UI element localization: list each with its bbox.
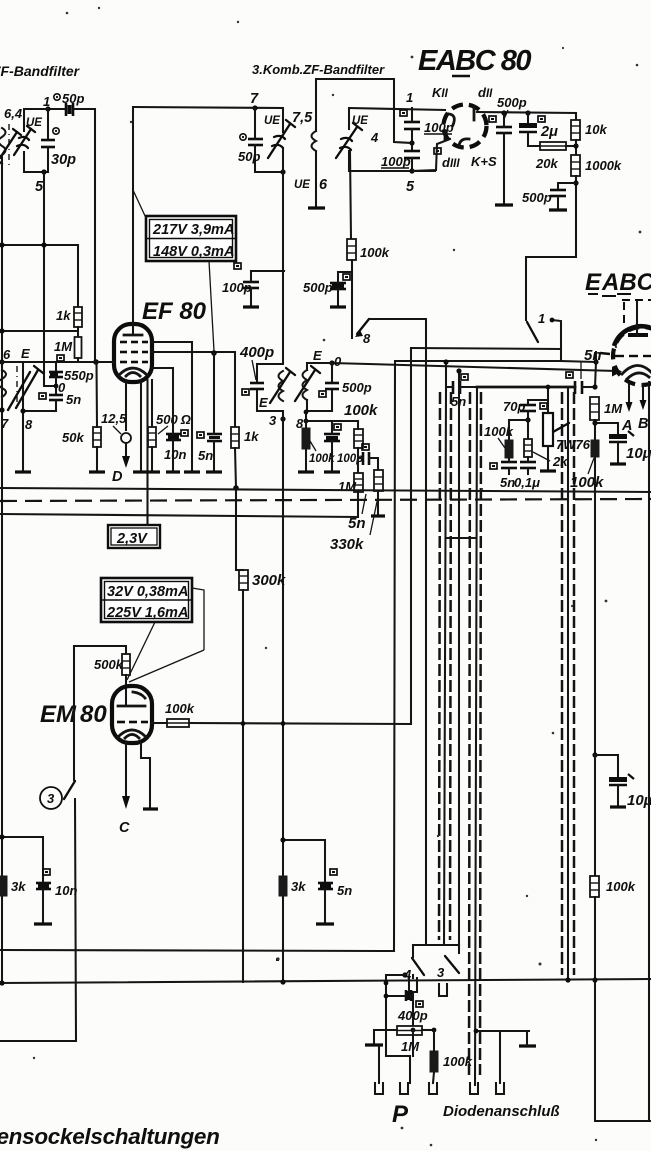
junction dots grid wire xyxy=(281,721,286,726)
svg-text:2,3V: 2,3V xyxy=(116,531,148,547)
capacitor 100p lower xyxy=(404,151,420,158)
svg-text:C: C xyxy=(119,820,130,836)
svg-text:7: 7 xyxy=(1,416,9,431)
550p to 5n node xyxy=(55,377,57,394)
svg-text:1000k: 1000k xyxy=(585,158,622,173)
svg-text:Diodenanschluß: Diodenanschluß xyxy=(443,1103,560,1120)
svg-text:2μ: 2μ xyxy=(540,124,558,140)
capacitor 5n cable link xyxy=(453,381,460,394)
tube lead heater down xyxy=(146,380,148,525)
svg-text:E: E xyxy=(259,395,268,410)
potentiometer 7W76 body xyxy=(543,413,553,446)
svg-text:2k: 2k xyxy=(552,454,568,469)
switch 3 feed wire xyxy=(73,646,75,780)
wire right column down xyxy=(575,113,577,120)
IF4 secondary coil left xyxy=(306,363,308,370)
svg-text:P: P xyxy=(392,1101,409,1128)
pin B wire with arrow xyxy=(640,384,647,410)
resistor 1k EF80 grid xyxy=(74,307,82,327)
pointer box right elbow xyxy=(192,588,204,650)
junction dot node 5 xyxy=(409,168,414,173)
IF4 primary coil xyxy=(279,371,284,401)
dot marker above 550p xyxy=(57,355,64,361)
svg-text:D: D xyxy=(112,469,123,485)
pot bottom ground xyxy=(547,446,549,470)
junction dot 10u second tap xyxy=(592,752,597,757)
100k ground stems xyxy=(305,421,307,428)
wire 100k to 500p node xyxy=(338,260,352,272)
resistor 2k xyxy=(524,439,532,457)
dot marker near 70p xyxy=(540,403,547,409)
EF80 grid dashes xyxy=(120,342,148,362)
junction dots y245 xyxy=(0,242,5,247)
wire under contact4 column xyxy=(386,1055,410,1057)
svg-text:300k: 300k xyxy=(252,572,286,589)
5n link stems xyxy=(358,457,363,459)
2u stems xyxy=(527,113,529,123)
measuring loop 12,5 xyxy=(121,433,131,443)
svg-text:5n: 5n xyxy=(500,475,515,490)
cable1 conductor down xyxy=(444,390,446,944)
EM80 target lead to ground xyxy=(141,743,150,808)
junction dot contact4 column xyxy=(384,981,389,986)
svg-text:5: 5 xyxy=(35,179,44,195)
svg-text:500p: 500p xyxy=(342,380,372,395)
junction dot 0 xyxy=(54,384,59,389)
100k branch stem xyxy=(508,420,510,440)
50p-2 stems xyxy=(254,108,256,139)
resistor 1M pickup xyxy=(397,1026,422,1035)
leader 2k xyxy=(533,452,550,461)
svg-text:50k: 50k xyxy=(62,430,84,445)
svg-text:E: E xyxy=(21,346,30,361)
resistor 1000k xyxy=(571,155,580,176)
junction dot line C start xyxy=(329,360,334,365)
svg-text:0: 0 xyxy=(334,354,342,369)
dot marker above 5n right xyxy=(330,869,337,875)
capacitor 70p xyxy=(520,405,536,411)
underline under B xyxy=(452,75,470,77)
long vertical from node3 xyxy=(282,411,284,982)
junction dot g1 xyxy=(93,359,99,365)
10u second ground xyxy=(617,785,619,806)
svg-text:30p: 30p xyxy=(51,152,76,168)
variable core arrow primary xyxy=(270,368,295,403)
node 8 stub xyxy=(305,411,307,421)
junction dot mid caps xyxy=(409,140,414,145)
svg-text:500p: 500p xyxy=(522,190,552,205)
capacitor 5n right xyxy=(318,883,333,889)
svg-text:100k: 100k xyxy=(443,1054,473,1069)
svg-text:ZF-Bandfilter: ZF-Bandfilter xyxy=(0,63,81,79)
resistor 100k pickup xyxy=(430,1051,438,1072)
5n bottom stem xyxy=(55,400,57,411)
switch arm 4 xyxy=(412,958,424,975)
5n cable link wires xyxy=(446,386,453,388)
junction dot trimmer bottom xyxy=(280,169,285,174)
IF4 primary box xyxy=(257,363,283,365)
svg-text:7W76: 7W76 xyxy=(556,437,591,452)
wire grid node down xyxy=(595,362,596,387)
wire 1M to 100k xyxy=(594,420,596,440)
cathode hook K+S xyxy=(459,139,469,146)
svg-text:8: 8 xyxy=(363,331,371,346)
junction dot 20k node xyxy=(573,143,578,148)
ground below coil xyxy=(308,206,325,209)
pointer box to screen line xyxy=(209,261,214,351)
ground under 50k xyxy=(89,470,105,473)
resistor 100k series xyxy=(354,429,363,448)
svg-text:330k: 330k xyxy=(330,536,364,553)
resistor 3k left xyxy=(0,876,7,896)
dot marker near 500p xyxy=(489,116,496,122)
svg-text:100k: 100k xyxy=(165,701,195,716)
svg-text:1: 1 xyxy=(406,90,413,105)
0,1u stems xyxy=(527,457,529,462)
wire d II anode out to right xyxy=(477,112,576,113)
wire 1000k down xyxy=(526,176,576,320)
junction dot 500p-c tap xyxy=(573,180,578,185)
resistor 500k xyxy=(122,654,130,675)
vertical to bottom bus xyxy=(394,361,395,951)
resistor 1M AF xyxy=(354,473,363,492)
svg-text:0: 0 xyxy=(58,380,66,395)
label 100p upper underlined xyxy=(424,120,454,135)
svg-text:3: 3 xyxy=(47,791,55,806)
svg-text:10k: 10k xyxy=(585,122,607,137)
capacitor 5n cathode xyxy=(207,434,222,441)
bus line lower full width xyxy=(0,979,651,983)
arrowhead into EABC2 cathode xyxy=(612,367,622,377)
capacitor 30p xyxy=(41,140,55,147)
leader 500ohm xyxy=(158,426,168,434)
resistor 1M grid leak xyxy=(590,397,599,420)
label 100p lower underlined xyxy=(381,154,411,169)
capacitor 100p upper xyxy=(404,122,420,129)
capacitor 400p xyxy=(250,383,264,389)
terminal 4 xyxy=(470,1083,478,1094)
pickup switch bar xyxy=(413,944,459,946)
svg-text:B: B xyxy=(638,416,648,432)
contact 3 column xyxy=(412,975,414,978)
wire 2k branch xyxy=(527,420,529,439)
node 1 junction dot xyxy=(45,106,50,111)
capacitor 400p pickup xyxy=(406,990,411,1001)
70p bottom stem xyxy=(527,411,529,420)
trimmer capacitor EABC box xyxy=(336,123,362,158)
tube EABC80 dashed envelope xyxy=(444,105,487,148)
50k wires xyxy=(95,362,98,427)
5n right ground xyxy=(324,889,326,923)
leader 5n coupling xyxy=(580,362,582,379)
svg-text:550p: 550p xyxy=(64,368,94,383)
trimmer capacitor 3.komb xyxy=(268,120,295,158)
pin A wire with arrow xyxy=(626,384,633,412)
junction dot 2u tap xyxy=(525,110,530,115)
tube2 cathode arcs xyxy=(622,365,651,379)
svg-text:EF 80: EF 80 xyxy=(142,298,207,325)
svg-text:217V 3,9mA: 217V 3,9mA xyxy=(152,222,234,238)
bus line upper xyxy=(0,950,394,951)
wire 10k to 1000k xyxy=(575,140,577,155)
100k pickup wires xyxy=(433,1030,435,1051)
svg-text:100k: 100k xyxy=(570,474,604,491)
capacitor 5n coupling xyxy=(575,381,582,394)
wire trimmer line down to 4th filter xyxy=(282,148,284,364)
5n branch wire right xyxy=(283,840,325,882)
junction dot 70p node xyxy=(525,417,530,422)
dot marker above 5n cable xyxy=(461,374,468,380)
switch 8 arm xyxy=(355,319,369,337)
node 7 junction dot xyxy=(252,105,257,110)
heater return line lower xyxy=(0,514,358,517)
junction dot y331 xyxy=(0,328,5,333)
10n branch wire left xyxy=(2,837,43,882)
E-box left edge xyxy=(23,363,56,411)
leader 100k lower xyxy=(310,441,316,451)
svg-text:400p: 400p xyxy=(397,1008,428,1023)
svg-text:100k: 100k xyxy=(606,879,636,894)
tube2 grid dashes xyxy=(600,353,651,356)
svg-text:5n: 5n xyxy=(198,448,213,463)
capacitor 550p xyxy=(49,372,63,377)
circled 3 xyxy=(40,787,62,809)
junction dot cable1 bus xyxy=(443,359,448,364)
dot marker near 50p xyxy=(54,94,60,100)
junction dot 1M top xyxy=(592,384,597,389)
svg-text:E: E xyxy=(313,348,322,363)
ground under 500p xyxy=(495,203,513,206)
star mark xyxy=(276,958,279,961)
tube EF80 envelope xyxy=(114,324,152,382)
coil left edge first filter xyxy=(0,128,6,164)
wire loop to arrow D xyxy=(125,443,127,457)
resistor 100k AGC xyxy=(347,239,356,260)
wire from 50p to right corner xyxy=(74,109,95,362)
tube lead cathode D xyxy=(125,380,127,430)
dot marker near 400p pickup xyxy=(416,1001,423,1007)
wire horizontal y331 xyxy=(0,330,77,332)
svg-text:10μ: 10μ xyxy=(626,445,651,462)
wire 500k to anode xyxy=(125,675,127,706)
svg-text:400p: 400p xyxy=(239,344,274,361)
tube2 anode stem xyxy=(636,301,638,335)
shielded cable3 conductor xyxy=(567,387,569,980)
leader 330k xyxy=(370,497,378,535)
svg-text:K+S: K+S xyxy=(471,154,497,169)
grid wire to AM bus xyxy=(189,723,411,724)
IF4 secondary box top xyxy=(307,362,332,364)
junction dot 3k right xyxy=(280,837,285,842)
wire node5 down long xyxy=(43,172,45,363)
pot top stem xyxy=(547,400,549,413)
svg-text:3k: 3k xyxy=(11,879,26,894)
wire 300k down to bus xyxy=(242,590,244,982)
junction dot bus crossing xyxy=(592,977,597,982)
first filter box wires xyxy=(24,109,48,131)
svg-text:32V 0,38mA: 32V 0,38mA xyxy=(107,584,188,600)
svg-text:1M: 1M xyxy=(604,401,623,416)
dot marker above 10n left xyxy=(43,869,50,875)
capacitor 10u second electrolytic xyxy=(609,774,634,785)
contact 1 dot xyxy=(550,318,555,323)
svg-text:3: 3 xyxy=(269,413,277,428)
second trimmer arrow xyxy=(0,129,21,158)
5n stems xyxy=(213,353,215,434)
junction dot 7 xyxy=(0,407,5,412)
resistor 330k xyxy=(374,470,383,491)
svg-text:1M: 1M xyxy=(401,1039,420,1054)
EM80 cathode lead C xyxy=(125,743,127,796)
svg-text:500p: 500p xyxy=(303,280,333,295)
voltage box 32V/225V xyxy=(101,578,192,622)
resistor 100k EM80 xyxy=(167,719,189,727)
wire 100k AGC from trimmer xyxy=(350,152,351,239)
svg-text:5n: 5n xyxy=(584,347,602,364)
70p top elbow to line D xyxy=(528,387,548,405)
svg-text:rensockelschaltungen: rensockelschaltungen xyxy=(0,1124,220,1149)
svg-text:EABC 8: EABC 8 xyxy=(585,269,651,296)
arrow D xyxy=(122,456,130,468)
wire 500k elbow xyxy=(74,646,126,654)
svg-text:A: A xyxy=(621,418,632,434)
switch 3 arm xyxy=(64,781,75,799)
svg-text:10n: 10n xyxy=(55,883,77,898)
resistor 100k output xyxy=(590,876,599,897)
svg-text:6: 6 xyxy=(3,347,11,362)
node 5 junction dot xyxy=(41,169,46,174)
ground under 5n xyxy=(206,470,222,473)
resistor 1k cathode xyxy=(231,427,239,448)
100p upper stems xyxy=(411,108,413,122)
svg-text:1M: 1M xyxy=(54,339,73,354)
terminal 2 xyxy=(400,1083,408,1094)
svg-text:500p: 500p xyxy=(497,95,527,110)
pointer to anode 1 xyxy=(129,650,204,682)
E-box right caps chain xyxy=(55,363,57,371)
junction 0 wire from core xyxy=(44,363,55,386)
dot marker above 100p anode xyxy=(234,263,241,269)
capacitor 0,1u xyxy=(520,462,536,468)
pointer to anode 2 xyxy=(127,622,155,680)
pivot stubs xyxy=(412,945,414,957)
dot marker near 500p AGC xyxy=(343,274,350,280)
junction dots 1M wire xyxy=(411,1028,416,1033)
junction dot node6 xyxy=(0,359,5,364)
line A AM bus xyxy=(411,348,561,349)
chassis dashed line xyxy=(0,499,651,501)
voltage box 217V/148V xyxy=(146,216,236,261)
dot marker above 100p AF xyxy=(334,424,341,430)
chassis solid line upper xyxy=(0,488,651,492)
svg-text:0,1μ: 0,1μ xyxy=(514,475,540,490)
dot marker near 100p upper xyxy=(400,110,407,116)
dash-dot core line xyxy=(8,124,10,166)
capacitor 2u electrolytic xyxy=(519,123,537,132)
EM80 cathode arc xyxy=(118,730,146,738)
anode tick d II xyxy=(473,107,476,120)
capacitor 500p to ground xyxy=(496,127,512,133)
svg-text:100p: 100p xyxy=(381,154,411,169)
svg-text:1M: 1M xyxy=(338,479,357,494)
EF80 anode bar xyxy=(124,334,142,337)
line B AF bus xyxy=(395,360,561,362)
EF80 anode stem xyxy=(132,107,134,335)
100p anode stems xyxy=(250,271,252,282)
grid bus from coil to tube xyxy=(2,361,96,363)
svg-text:dII: dII xyxy=(478,85,493,100)
svg-text:EABC 80: EABC 80 xyxy=(418,45,531,77)
junction dot 8 xyxy=(20,408,25,413)
resistor 100k AF divider xyxy=(591,440,599,457)
contact 3 cup xyxy=(409,978,417,992)
wire EF80 anode top run xyxy=(133,107,283,132)
wire 100k to bottom corner xyxy=(595,897,651,1121)
capacitor 5n grid xyxy=(49,395,63,400)
1M bottom xyxy=(357,492,359,516)
cable3 shield dashes xyxy=(562,392,574,975)
wire 100p anode decoupling xyxy=(251,270,284,272)
resistor 100k to ground xyxy=(302,428,310,449)
left IF secondary coil xyxy=(0,370,6,397)
leader 400p xyxy=(252,360,256,380)
svg-text:7,5: 7,5 xyxy=(292,110,313,126)
junction dot 400p left xyxy=(384,994,389,999)
svg-text:6,4: 6,4 xyxy=(4,106,23,121)
shielded cable1 conductor xyxy=(445,362,447,390)
dash-dot core E-box xyxy=(16,366,18,408)
tube lead k to ground xyxy=(140,380,142,471)
resistor 20k horizontal xyxy=(540,142,566,150)
capacitor 50p second filter xyxy=(248,139,263,145)
ground under k xyxy=(133,470,147,473)
underlines EABC2 xyxy=(588,294,631,296)
ground under grid return xyxy=(22,411,24,471)
pointer anode wire to box xyxy=(133,190,146,218)
pickup line right edge xyxy=(458,371,460,945)
wire to 500p-c xyxy=(558,183,576,190)
100k series stems xyxy=(357,421,359,429)
vertical to EM80 grid xyxy=(410,348,412,724)
500p-c stem and ground xyxy=(557,196,559,209)
ground left of 1M xyxy=(373,1030,375,1044)
leader 500p xyxy=(504,110,508,119)
terminal 1 wire xyxy=(378,1047,380,1083)
wire 20k to node xyxy=(566,145,576,147)
svg-text:500k: 500k xyxy=(94,657,124,672)
line C detector long wire xyxy=(332,363,616,371)
svg-text:70p: 70p xyxy=(503,399,525,414)
tube2 grid elbow xyxy=(561,352,596,362)
contact cup cable column xyxy=(439,984,447,996)
tube EABC80-2 dashed envelope xyxy=(613,327,651,385)
svg-text:1k: 1k xyxy=(244,429,259,444)
leader 12,5 xyxy=(113,426,121,434)
leader 100k tone xyxy=(498,438,505,448)
contact 4 dot and wire xyxy=(402,972,407,977)
wire down to 100k bottom xyxy=(594,755,596,876)
wire 1k branch xyxy=(234,352,236,427)
resistor 500ohm xyxy=(148,427,156,447)
svg-text:225V 1,6mA: 225V 1,6mA xyxy=(106,605,188,621)
EM80 target wedge xyxy=(133,692,145,698)
tube EM80 envelope xyxy=(112,686,152,743)
svg-text:5n: 5n xyxy=(66,392,81,407)
EABC input box top wire xyxy=(349,108,445,110)
tube2 dashed top lead xyxy=(622,300,651,328)
resistor 100k tone xyxy=(505,440,513,458)
svg-text:5: 5 xyxy=(406,179,415,195)
